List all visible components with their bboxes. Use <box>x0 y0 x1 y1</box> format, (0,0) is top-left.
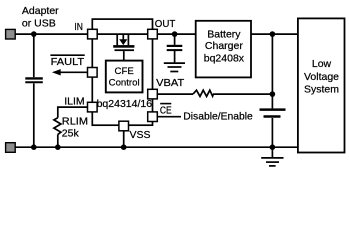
svg-text:IN: IN <box>74 21 83 33</box>
svg-text:Disable/Enable: Disable/Enable <box>183 111 253 123</box>
svg-text:Control: Control <box>109 77 140 88</box>
svg-text:Voltage: Voltage <box>304 71 339 83</box>
svg-text:bq2408x: bq2408x <box>204 53 245 65</box>
svg-text:FAULT: FAULT <box>51 56 85 68</box>
svg-text:OUT: OUT <box>155 18 176 30</box>
svg-text:Adapter: Adapter <box>22 5 59 17</box>
svg-text:System: System <box>304 83 339 95</box>
svg-text:Charger: Charger <box>205 40 243 52</box>
svg-text:VBAT: VBAT <box>156 77 185 89</box>
svg-text:bq24314/16: bq24314/16 <box>97 98 153 110</box>
svg-text:RLIM: RLIM <box>62 115 88 127</box>
svg-text:ILIM: ILIM <box>64 96 84 108</box>
svg-text:CFE: CFE <box>115 66 134 77</box>
svg-text:Low: Low <box>312 58 332 70</box>
svg-text:Battery: Battery <box>207 28 241 40</box>
svg-text:VSS: VSS <box>130 129 151 141</box>
svg-text:or USB: or USB <box>22 17 56 29</box>
svg-text:25k: 25k <box>62 128 80 140</box>
svg-text:CE: CE <box>160 105 172 117</box>
